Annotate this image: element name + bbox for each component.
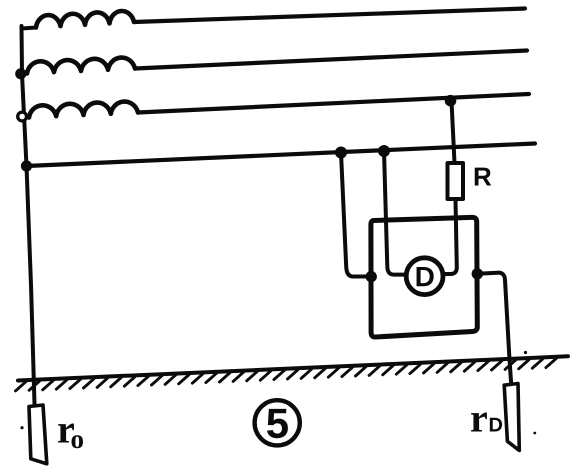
wire: left vertical neutral bus [22,26,35,404]
wire: resistor down to detector right terminal [445,199,457,274]
wire: box right edge to ground electrode rD [477,273,511,382]
box: shield loop around detector [371,217,477,337]
electrode r0 (left ground rod) [29,405,47,464]
label R [475,168,492,186]
detector D (circle) [406,258,443,295]
junction node: box right edge [472,268,483,279]
junction node: line3 to R [445,95,457,107]
inductor L3 (phase C coil) [29,102,138,118]
wire: line3 down to resistor [452,101,455,163]
electrode rD (right ground rod) [504,384,519,451]
node: open circle bus-coil3 [18,112,27,121]
ground surface line [18,356,568,380]
wire: phase line 2 [135,51,527,69]
inductor L2 (phase B coil) [27,58,135,74]
inductor L1 (phase A coil) [22,28,37,29]
ink speck ground [524,351,527,354]
wire: phase line 3 [138,94,529,113]
ink speck left [20,426,23,429]
wire: phase line 1 [134,9,525,23]
junction node: box left edge [366,271,377,282]
label r0 [58,424,74,443]
junction node: bus-line4 [21,160,32,171]
label rD [471,413,487,432]
junction node: bus-coil2 [15,68,26,79]
wire: line4 right tap down to detector left terminal [384,151,405,275]
ink speck right [533,432,536,435]
junction node: line4 right tap [378,145,390,157]
wire: neutral line 4 [27,144,536,167]
resistor R [448,163,464,199]
junction node: line4 left tap [335,147,347,159]
wire: line4 left tap down to box left edge [341,153,369,277]
ground hatching [16,358,557,391]
figure number 5 (circled) [255,400,300,445]
